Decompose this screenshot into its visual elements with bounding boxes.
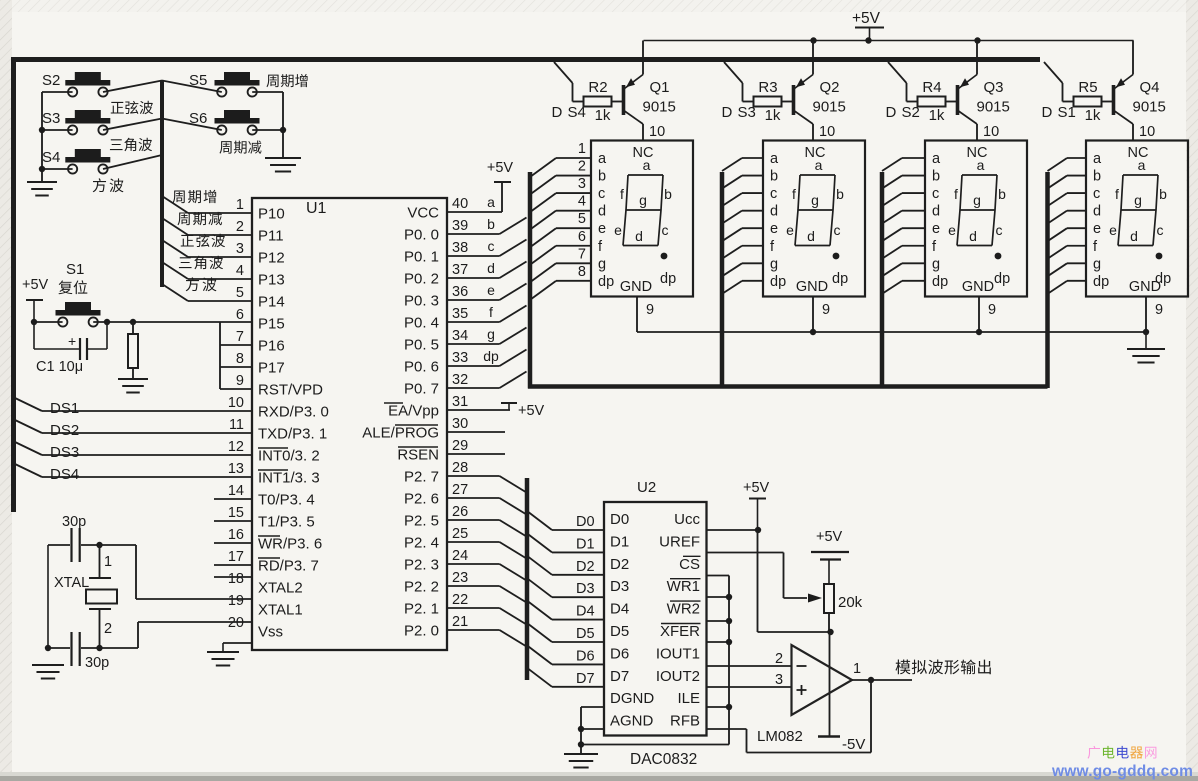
svg-text:LM082: LM082: [757, 728, 803, 745]
label D S2: [886, 104, 920, 121]
svg-text:P2. 1: P2. 1: [404, 601, 439, 618]
svg-text:P11: P11: [258, 228, 284, 245]
svg-text:P0. 3: P0. 3: [404, 293, 439, 310]
svg-text:6: 6: [236, 307, 244, 323]
op U2 DAC0832 body: [604, 479, 707, 736]
svg-text:22: 22: [452, 592, 468, 608]
svg-text:P15: P15: [258, 316, 285, 333]
svg-text:25: 25: [452, 526, 468, 542]
power +5V EA pin 31: [447, 403, 545, 419]
svg-text:36: 36: [452, 284, 468, 300]
svg-text:WR2: WR2: [667, 601, 700, 618]
resistor R2 1k: [584, 79, 612, 124]
svg-text:P2. 2: P2. 2: [404, 579, 439, 596]
svg-text:d: d: [1093, 204, 1101, 220]
svg-text:R5: R5: [1078, 79, 1097, 96]
svg-text:9: 9: [646, 302, 654, 318]
wire P0.7 segment dp: [447, 372, 527, 389]
svg-text:VCC: VCC: [407, 205, 439, 222]
wire U1 pin 18 stub: [214, 576, 252, 578]
svg-text:b: b: [998, 186, 1006, 202]
wire crystal left rail: [47, 545, 49, 649]
svg-text:1k: 1k: [595, 107, 611, 124]
wire emitter Q1 to rail: [642, 41, 644, 75]
svg-text:c: c: [932, 186, 939, 202]
svg-text:c: c: [1157, 222, 1164, 238]
svg-text:9015: 9015: [813, 99, 846, 116]
svg-text:1: 1: [578, 141, 586, 157]
svg-text:b: b: [770, 169, 778, 185]
ground U2: [564, 754, 598, 768]
wire U1 pin 17 stub: [214, 564, 252, 566]
wire P2.6 to data bus: [447, 498, 527, 515]
label sine wave: [111, 101, 153, 114]
svg-text:+5V: +5V: [518, 403, 545, 419]
svg-text:d: d: [487, 260, 495, 276]
svg-text:C1 10μ: C1 10μ: [36, 359, 83, 375]
svg-text:10: 10: [228, 395, 244, 411]
label DS1: [50, 400, 79, 417]
junction S1 right: [104, 319, 110, 325]
capacitor 30p top: [48, 514, 100, 562]
svg-text:23: 23: [452, 570, 468, 586]
label pin 3 正弦波: [181, 234, 225, 247]
wire collector Q3 pin 10: [977, 124, 999, 141]
svg-text:DGND: DGND: [610, 690, 654, 707]
wire collector Q2 pin 10: [813, 124, 835, 141]
svg-text:D4: D4: [576, 604, 595, 620]
svg-text:c: c: [488, 238, 495, 254]
wire control bus vertical: [728, 576, 730, 745]
svg-text:GND: GND: [962, 279, 994, 295]
wire P0.2 segment c: [447, 262, 527, 279]
wire switch right rail: [282, 92, 284, 157]
U1 right pin numbers: [452, 196, 468, 630]
svg-text:GND: GND: [620, 279, 652, 295]
svg-text:U1: U1: [306, 200, 327, 217]
wire collector Q4 pin 10: [1133, 124, 1155, 141]
wire XFER: [707, 641, 730, 643]
wire opamp output: [852, 679, 912, 681]
svg-text:e: e: [598, 221, 606, 237]
wire P2.3 to data bus: [447, 564, 527, 581]
svg-text:DS2: DS2: [50, 422, 79, 439]
svg-text:a: a: [598, 151, 607, 167]
svg-text:9: 9: [1155, 302, 1163, 318]
svg-text:D7: D7: [576, 671, 595, 687]
svg-text:Q2: Q2: [820, 79, 840, 96]
transistor Q2 9015: [794, 75, 846, 125]
wire DS display 3 pin 9: [979, 297, 996, 333]
svg-text:30p: 30p: [85, 655, 109, 671]
wire DS display 4 pin 9: [1146, 297, 1163, 333]
svg-text:P13: P13: [258, 272, 285, 289]
wire IOUT1 to inverting input: [707, 665, 792, 667]
svg-text:1k: 1k: [765, 107, 781, 124]
svg-text:dp: dp: [770, 274, 786, 290]
svg-text:c: c: [770, 186, 777, 202]
svg-text:g: g: [1093, 256, 1101, 272]
wire P0 segment bus vertical: [528, 172, 533, 389]
label pin 4 三角波: [179, 256, 223, 269]
potentiometer 20k: [824, 584, 863, 613]
svg-text:a: a: [487, 194, 495, 210]
svg-text:9015: 9015: [643, 99, 676, 116]
wire U1 pin 2 from switch bus: [162, 218, 252, 235]
svg-text:INT1/3. 3: INT1/3. 3: [258, 470, 320, 487]
switch S6: [189, 110, 260, 135]
DS display 3 pin letters: [932, 151, 948, 290]
svg-text:P2. 3: P2. 3: [404, 557, 439, 574]
svg-text:d: d: [1130, 228, 1138, 244]
svg-text:P0. 4: P0. 4: [404, 315, 439, 332]
svg-text:21: 21: [452, 614, 468, 630]
svg-text:D: D: [552, 104, 563, 121]
wire U1 pin 1 from switch bus: [162, 196, 252, 213]
wire XTAL1 to U1 pin 19: [100, 622, 253, 648]
svg-text:d: d: [807, 228, 815, 244]
switch S3: [42, 110, 110, 135]
wire P0.0 segment a: [447, 218, 527, 235]
svg-text:3: 3: [578, 176, 586, 192]
svg-text:e: e: [786, 222, 794, 238]
svg-text:+5V: +5V: [22, 277, 49, 293]
wire AGND: [581, 728, 604, 730]
svg-text:P2. 5: P2. 5: [404, 513, 439, 530]
resistor R4 1k: [918, 79, 946, 124]
svg-text:12: 12: [228, 439, 244, 455]
label segment letter d: [487, 260, 495, 276]
op DS display 4 body: [1086, 141, 1188, 297]
svg-text:1k: 1k: [1085, 107, 1101, 124]
svg-text:RXD/P3. 0: RXD/P3. 0: [258, 404, 329, 421]
svg-text:DS1: DS1: [50, 400, 79, 417]
ground switches left: [27, 182, 57, 196]
label segment letter f: [489, 304, 493, 320]
wire S2 to bus: [103, 81, 162, 93]
watermark url: [1051, 763, 1193, 780]
svg-text:T1/P3. 5: T1/P3. 5: [258, 514, 315, 531]
label DS4: [50, 466, 79, 483]
svg-text:20: 20: [228, 615, 244, 631]
wire negative supply: [829, 632, 831, 737]
svg-text:14: 14: [228, 483, 244, 499]
resistor R5 1k: [1074, 79, 1102, 124]
op DS display 1 body: [591, 141, 693, 297]
DS display 4 seven segment digit: [1109, 157, 1167, 246]
svg-text:D0: D0: [576, 514, 595, 530]
svg-text:Ucc: Ucc: [674, 511, 700, 528]
svg-text:7: 7: [236, 329, 244, 345]
svg-text:30: 30: [452, 416, 468, 432]
svg-text:30p: 30p: [62, 514, 86, 530]
svg-text:D5: D5: [576, 626, 595, 642]
crystal XTAL: [54, 575, 117, 609]
svg-text:28: 28: [452, 460, 468, 476]
svg-text:10: 10: [649, 124, 665, 140]
wire base Q3: [946, 101, 958, 103]
svg-text:e: e: [1109, 222, 1117, 238]
wire P2.0 to data bus: [447, 630, 527, 647]
wire data D1: [527, 533, 604, 552]
watermark site name: [1088, 746, 1157, 759]
svg-text:6: 6: [578, 229, 586, 245]
svg-text:RST/VPD: RST/VPD: [258, 382, 323, 399]
op DS display 3 body: [925, 141, 1027, 297]
junction S6 rail: [280, 127, 286, 133]
ground U1 Vss: [207, 643, 252, 666]
svg-text:2: 2: [104, 621, 112, 637]
wire control gnd run: [581, 744, 729, 746]
svg-text:D2: D2: [576, 559, 595, 575]
wire DS tap to R2: [554, 62, 584, 102]
svg-text:4: 4: [578, 194, 586, 210]
svg-text:7: 7: [578, 246, 586, 262]
wire S4 left: [42, 168, 73, 170]
svg-text:D1: D1: [576, 536, 595, 552]
wire DS display 4 segment stubs: [1048, 158, 1087, 294]
svg-text:R3: R3: [758, 79, 777, 96]
wire S6 to bus: [162, 119, 222, 131]
svg-text:g: g: [598, 256, 606, 272]
svg-text:24: 24: [452, 548, 468, 564]
label segment letter e: [487, 282, 495, 298]
wire data D6: [527, 645, 604, 664]
U2 right pin labels: [656, 511, 701, 730]
svg-text:dp: dp: [932, 274, 948, 290]
DS display 4 decimal point: [1155, 253, 1171, 287]
svg-text:P0. 1: P0. 1: [404, 249, 439, 266]
wire IOUT2 to noninverting input: [707, 686, 792, 688]
svg-text:+: +: [68, 333, 76, 349]
svg-text:17: 17: [228, 549, 244, 565]
svg-text:9: 9: [236, 373, 244, 389]
U1 left pin labels: [258, 206, 329, 641]
capacitor 30p bottom: [48, 632, 109, 671]
wire S4 to bus: [103, 155, 162, 169]
svg-text:XFER: XFER: [660, 623, 700, 640]
junction S4 rail: [39, 166, 45, 172]
svg-text:d: d: [598, 204, 606, 220]
svg-text:1: 1: [236, 197, 244, 213]
junction GND display 3: [976, 329, 982, 335]
junction S1 left: [31, 319, 37, 325]
junction crystal rail: [45, 645, 51, 651]
svg-text:P17: P17: [258, 360, 285, 377]
svg-text:20k: 20k: [838, 594, 863, 611]
DS display 4 label NC: [1128, 145, 1149, 161]
svg-text:b: b: [1093, 169, 1101, 185]
wire base Q4: [1102, 101, 1114, 103]
svg-text:R2: R2: [588, 79, 607, 96]
svg-text:g: g: [639, 192, 647, 208]
wire P2.5 to data bus: [447, 520, 527, 537]
svg-text:ALE/PROG: ALE/PROG: [362, 425, 439, 442]
node 1: [96, 542, 112, 578]
wire DS display 2 segment stubs: [722, 158, 763, 294]
wire P2.7 to data bus: [447, 476, 527, 493]
wire display GND bus: [637, 331, 1146, 333]
wire switch left rail: [41, 92, 43, 181]
svg-text:g: g: [811, 192, 819, 208]
label segment letter b: [487, 216, 495, 232]
label segment letter g: [487, 326, 495, 342]
svg-text:1: 1: [104, 554, 112, 570]
svg-text:2: 2: [775, 651, 783, 667]
label D S4: [552, 104, 586, 121]
svg-text:b: b: [1159, 186, 1167, 202]
svg-text:D7: D7: [610, 668, 629, 685]
transistor Q4 9015: [1114, 75, 1166, 125]
svg-text:D1: D1: [610, 533, 629, 550]
DS display 1 seven segment digit: [614, 157, 672, 246]
DS display 1 pin numbers: [578, 141, 586, 280]
svg-text:26: 26: [452, 504, 468, 520]
wire S3 to bus: [103, 119, 162, 131]
svg-text:dp: dp: [483, 348, 499, 364]
svg-text:S4: S4: [568, 104, 586, 121]
svg-text:P0. 7: P0. 7: [404, 381, 439, 398]
svg-text:P0. 5: P0. 5: [404, 337, 439, 354]
junction rail supply tap: [865, 37, 871, 43]
svg-text:g: g: [770, 256, 778, 272]
svg-text:IOUT2: IOUT2: [656, 668, 700, 685]
svg-text:AGND: AGND: [610, 713, 654, 730]
svg-text:+5V: +5V: [852, 10, 881, 27]
wire CS: [707, 575, 730, 577]
wire DS tap to R4: [888, 62, 918, 102]
DS display 2 decimal point: [832, 253, 848, 287]
op-amp U3 LM082: [757, 645, 861, 745]
svg-text:f: f: [1115, 186, 1119, 202]
svg-text:CS: CS: [679, 556, 700, 573]
svg-text:a: a: [977, 157, 985, 173]
junction WR2: [726, 618, 732, 624]
power +5V supply top: [852, 10, 884, 41]
wire DS display 1 pin 9: [637, 297, 654, 333]
DS display 2 label GND: [796, 279, 828, 295]
junction GND display 4: [1143, 329, 1149, 335]
switch S5: [189, 72, 260, 97]
wire P0.1 segment b: [447, 240, 527, 257]
svg-text:S1: S1: [66, 261, 84, 278]
svg-text:11: 11: [229, 417, 244, 433]
svg-text:DS3: DS3: [50, 444, 79, 461]
junction AGND gnd: [578, 741, 584, 747]
svg-text:P2. 0: P2. 0: [404, 623, 439, 640]
svg-text:P2. 4: P2. 4: [404, 535, 439, 552]
svg-text:b: b: [664, 186, 672, 202]
label triangle wave: [110, 138, 152, 151]
svg-text:+5V: +5V: [743, 480, 770, 496]
wire U1 pins 6-9 ladder: [220, 322, 252, 389]
svg-text:P2. 7: P2. 7: [404, 469, 439, 486]
wire P2.4 to data bus: [447, 542, 527, 559]
svg-text:WR/P3. 6: WR/P3. 6: [258, 536, 322, 553]
svg-text:e: e: [1093, 221, 1101, 237]
svg-text:37: 37: [452, 262, 468, 278]
svg-text:38: 38: [452, 240, 468, 256]
svg-text:a: a: [1138, 157, 1146, 173]
svg-text:Q1: Q1: [650, 79, 670, 96]
power -5V opamp: [818, 736, 865, 753]
svg-text:D5: D5: [610, 623, 629, 640]
svg-text:P14: P14: [258, 294, 285, 311]
junction Ucc: [755, 527, 761, 533]
svg-text:D0: D0: [610, 511, 629, 528]
svg-text:P10: P10: [258, 206, 285, 223]
svg-text:D: D: [886, 104, 897, 121]
label period increase S5: [266, 74, 307, 87]
DS display 4 label GND: [1129, 279, 1161, 295]
svg-text:dp: dp: [832, 271, 848, 287]
wire data D0: [527, 511, 604, 530]
svg-text:TXD/P3. 1: TXD/P3. 1: [258, 426, 327, 443]
svg-text:D4: D4: [610, 601, 629, 618]
ground crystal: [32, 665, 64, 679]
svg-text:f: f: [489, 304, 493, 320]
svg-text:D6: D6: [576, 648, 595, 664]
svg-text:27: 27: [452, 482, 468, 498]
wire WR2: [707, 620, 730, 622]
label D S3: [722, 104, 756, 121]
svg-text:e: e: [948, 222, 956, 238]
svg-text:GND: GND: [1129, 279, 1161, 295]
svg-text:d: d: [969, 228, 977, 244]
wire Ucc: [707, 529, 759, 531]
label D6: [576, 648, 595, 664]
wire segment bus riser 2: [720, 172, 725, 388]
wire S5 to bus: [162, 81, 222, 93]
svg-text:3: 3: [236, 241, 244, 257]
svg-text:18: 18: [228, 571, 244, 587]
junction S3 rail: [39, 127, 45, 133]
wire PSEN pin 29 stub: [447, 453, 505, 455]
wire DS1 pin 10: [15, 398, 252, 411]
wire DS2 pin 11: [15, 420, 252, 433]
svg-text:e: e: [487, 282, 495, 298]
svg-text:a: a: [770, 151, 779, 167]
svg-text:INT0/3. 2: INT0/3. 2: [258, 448, 320, 465]
DS display 2 label NC: [805, 145, 826, 161]
svg-text:34: 34: [452, 328, 468, 344]
junction WR1: [726, 594, 732, 600]
svg-text:b: b: [836, 186, 844, 202]
svg-text:dp: dp: [994, 271, 1010, 287]
DS display 3 label NC: [967, 145, 988, 161]
svg-text:XTAL2: XTAL2: [258, 580, 303, 597]
junction S1 resistor: [130, 319, 136, 325]
svg-text:2: 2: [578, 159, 586, 175]
wire DS display 2 pin 9: [813, 297, 830, 333]
svg-text:f: f: [954, 186, 958, 202]
wire P0.3 segment d: [447, 284, 527, 301]
svg-text:5: 5: [578, 211, 586, 227]
svg-text:10: 10: [1139, 124, 1155, 140]
label pin 2 周期减: [177, 212, 222, 225]
svg-text:S3: S3: [738, 104, 756, 121]
svg-text:32: 32: [452, 372, 468, 388]
svg-text:d: d: [635, 228, 643, 244]
wire S6 right: [252, 129, 283, 131]
wire +5V down to pot junction: [758, 530, 831, 632]
wire DS bus top frame: [11, 57, 1040, 62]
label D5: [576, 626, 595, 642]
ground S1 resistor: [118, 379, 148, 393]
svg-text:D6: D6: [610, 645, 629, 662]
wire DS display 3 segment stubs: [882, 158, 925, 294]
junction XFER: [726, 639, 732, 645]
